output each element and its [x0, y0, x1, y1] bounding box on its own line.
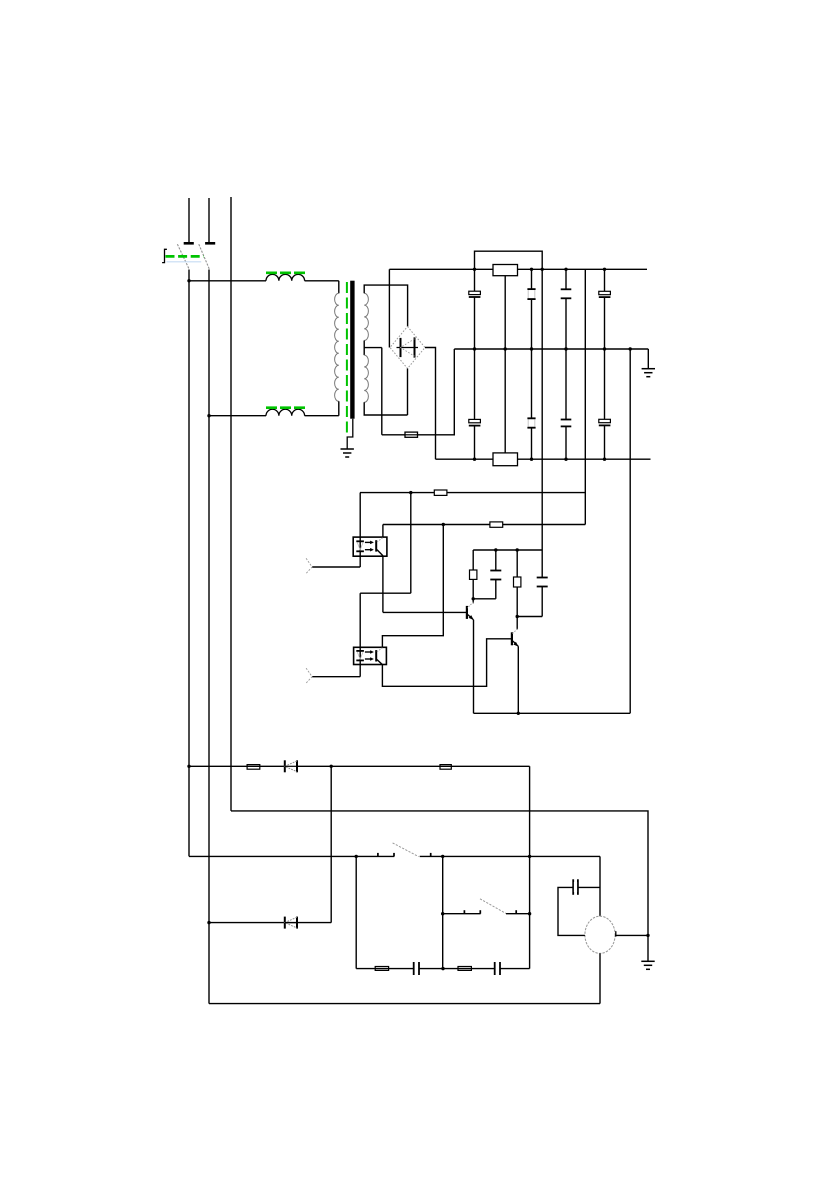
wire line A	[360, 492, 585, 494]
resistor R3	[470, 570, 477, 579]
wire snubber A drop	[355, 856, 357, 968]
optocoupler U3 box	[353, 537, 387, 556]
node AC line 2 primary return junction	[207, 414, 210, 417]
transistor Q2	[512, 629, 519, 647]
wire primary bottom lead	[305, 401, 339, 415]
wire motor earth riser	[647, 935, 649, 961]
breaker QF1 fixed contact bar pole 2	[205, 242, 215, 245]
wire motor riser	[599, 856, 601, 916]
wire AC line 1 below breaker	[188, 270, 190, 857]
node snubber A junction	[355, 855, 358, 858]
capacitor C12	[495, 962, 500, 975]
wire AC line 1 top entry	[188, 198, 190, 243]
wire driver section bottom rail	[474, 712, 631, 714]
optocoupler U3 phototransistor	[376, 538, 383, 556]
relay contact K1 blade	[393, 843, 419, 857]
capacitor C6	[527, 418, 535, 427]
node riser junction on line A	[409, 491, 412, 494]
capacitor C1	[469, 291, 481, 297]
node AC line 1 junction	[187, 279, 190, 282]
capacitor C4	[599, 291, 611, 297]
wire column C2	[531, 269, 533, 349]
node regulator ground junction	[504, 347, 507, 350]
node diode2 tap on AC line 2	[207, 921, 210, 924]
node snubber mid junction	[441, 967, 444, 970]
transformer T1 secondary winding upper	[364, 293, 368, 340]
wire motor bottom lead	[599, 953, 601, 1003]
wire line B	[383, 524, 585, 526]
wire bypass loop over regulator U1	[475, 251, 543, 269]
wire opto U3 LED column	[359, 493, 361, 567]
bridge rectifier D1 diamond outline	[390, 327, 425, 369]
regulator U1 box	[493, 265, 518, 276]
wire secondary centre stub	[363, 341, 365, 356]
capacitor C8	[599, 419, 611, 425]
wire long vertical middle-rail to driver rail	[629, 349, 631, 713]
wire bottom rail	[436, 458, 651, 460]
wire snubber line	[356, 968, 529, 970]
ground middle rail earth symbol	[642, 369, 655, 377]
fuse F1	[405, 432, 418, 437]
wire L2 to AC line 2	[209, 415, 266, 417]
optocoupler U3 light arrows	[365, 541, 374, 551]
resistor R7	[375, 967, 388, 971]
wire riser line A to opto2 bridge	[410, 493, 412, 594]
wire long vertical top-rail to line B	[584, 269, 586, 524]
node loop right junction	[541, 268, 544, 271]
resistor R4	[514, 577, 521, 587]
wire column C7	[565, 349, 567, 459]
wire bottom return rail	[209, 1003, 600, 1005]
motor M1 right brush tick	[615, 931, 617, 936]
relay contact K2 blade	[480, 899, 506, 914]
wire line1 left	[189, 765, 285, 767]
wire line2	[231, 811, 648, 936]
breaker QF1 handle bracket	[162, 249, 167, 262]
ground screen earth symbol	[341, 449, 354, 457]
wire centre tap to fuse	[382, 434, 405, 436]
wire regulator U2 ground pin	[504, 349, 506, 453]
inductor L1 core (green dashed)	[266, 271, 305, 274]
wire C10 to Q2 collector	[517, 616, 542, 618]
breaker QF1 blade pole 2	[199, 244, 210, 269]
wire contact line 1 right	[420, 855, 600, 857]
node C2 C6 junctions	[530, 268, 533, 461]
transformer T1 primary winding	[335, 293, 339, 401]
wire long vertical from loop to Q2 collector branch	[541, 269, 543, 616]
wire bridge left vertex to top rail	[388, 269, 390, 347]
optocoupler U4 phototransistor	[376, 648, 382, 665]
wire bridge right vertex to bottom rail	[425, 348, 436, 460]
capacitor C2	[527, 289, 535, 299]
node column junction middle rail	[629, 347, 632, 350]
capacitor C10	[537, 578, 548, 587]
wire opto U3 input	[312, 566, 360, 568]
wire column C5	[474, 349, 476, 459]
wire branch C9	[495, 550, 497, 599]
inductor L1	[266, 274, 305, 280]
node contact feed crossing junction	[528, 855, 531, 858]
capacitor C3	[561, 289, 572, 298]
breaker QF1 mechanical link (green dashed)	[166, 255, 204, 258]
node motor right junction	[646, 934, 649, 937]
wire contact line 2 left	[443, 913, 481, 915]
wire column C3	[565, 269, 567, 349]
wire line1 right	[297, 765, 530, 767]
optocoupler U4 box	[354, 647, 387, 664]
wire C13 right lead	[578, 886, 600, 888]
resistor R8	[458, 967, 471, 971]
wire motor right lead	[615, 934, 648, 936]
wire column C1	[474, 269, 476, 349]
wire opto U4 LED column	[359, 593, 361, 677]
wire middle rail	[454, 348, 648, 350]
inductor L2 core (green dashed)	[266, 406, 305, 409]
resistor R6	[440, 765, 451, 770]
resistor R1 on line A	[434, 490, 447, 495]
relay contact K2 terminal ticks	[464, 910, 516, 914]
ground motor earth symbol	[641, 961, 654, 969]
wire contact K2 riser	[442, 856, 444, 968]
capacitor C5	[469, 419, 481, 425]
wire column C8	[604, 349, 606, 459]
diode D3	[285, 917, 297, 929]
node Q2 emitter rail junction	[517, 712, 520, 715]
breaker QF1 blade pole 1	[177, 244, 189, 269]
wire diode2 line	[209, 922, 331, 924]
node sub-line junctions	[494, 548, 519, 551]
wire middle rail earth riser	[647, 349, 649, 369]
inductor L2	[266, 409, 305, 415]
breaker QF1 fixed contact bar pole 1	[184, 242, 194, 245]
wire regulator U1 ground pin	[504, 276, 506, 349]
wire contact line 2 right	[506, 913, 530, 915]
optocoupler U4 light arrows	[365, 651, 374, 661]
resistor R2 on line B	[490, 522, 503, 527]
node contact K2 right junction	[528, 912, 531, 915]
transformer T1 core bar	[350, 281, 354, 419]
node C4 C8 junctions	[603, 268, 606, 461]
wire opto U3 collector to line B	[382, 525, 384, 538]
wire opto U4 collector to line B	[382, 525, 443, 648]
optocoupler U3 LED	[356, 541, 364, 551]
capacitor C13 motor suppressor	[573, 879, 578, 895]
node Q1 collector junction	[472, 597, 475, 600]
node Q2 collector junction	[516, 615, 519, 618]
wire R3 C9 join	[473, 598, 496, 600]
node C3 C7 junctions	[564, 268, 567, 461]
wire diode riser	[330, 766, 332, 922]
wire centre tap	[364, 348, 382, 435]
transformer T1 screen (green dashed)	[346, 282, 348, 436]
wire secondary top lead	[364, 285, 407, 326]
capacitor C9	[490, 571, 501, 580]
relay contact K1 terminal ticks	[378, 853, 431, 857]
wire screen to ground	[347, 419, 353, 449]
wire sub-line	[473, 549, 542, 551]
node opto U4 collector junction line B	[442, 523, 445, 526]
capacitor C11	[414, 962, 419, 975]
wire branch R4	[516, 550, 518, 630]
transformer T1 secondary winding lower	[364, 355, 368, 402]
wire top rail	[389, 268, 647, 270]
node contact K2 feed junction	[441, 855, 444, 858]
node diode riser junction	[330, 765, 333, 768]
wire Q2 emitter to rail	[517, 646, 519, 713]
wire column C4	[604, 269, 606, 349]
wire AC line1 to L1	[189, 280, 266, 282]
wire bridge to opto2 LED	[360, 592, 411, 594]
connector pin 1 chevron	[306, 558, 312, 573]
wire opto U3 emitter to Q1 base	[383, 556, 467, 612]
wire secondary bottom lead	[364, 402, 407, 415]
wire opto U4 input	[312, 676, 360, 678]
motor M1 body	[585, 916, 615, 953]
resistor R5	[247, 765, 260, 770]
wire contact line 1 left	[189, 855, 394, 857]
node line1 tap on AC line 1	[187, 765, 190, 768]
wire C13 left loop	[558, 887, 585, 935]
wire column C6	[531, 349, 533, 459]
node C1 rail junctions	[473, 268, 476, 461]
transistor Q1	[467, 599, 474, 620]
breaker QF1 link shadow (light blue)	[167, 261, 202, 263]
wire AC line 3 vertical	[230, 197, 232, 811]
wire AC line 2 top entry	[208, 198, 210, 243]
wire L1 to primary	[305, 281, 339, 294]
optocoupler U4 LED	[356, 651, 364, 661]
wire opto U4 emitter to Q2 base	[382, 639, 512, 687]
bridge rectifier D1 diode symbol	[397, 337, 419, 357]
wire bridge bottom vertex to secondary	[407, 369, 409, 416]
diode D2	[285, 760, 297, 772]
wire branch R3	[472, 550, 474, 599]
connector pin 2 chevron	[306, 668, 312, 683]
wire Q1 emitter to rail	[473, 620, 475, 714]
wire AC line 2 below breaker	[208, 270, 210, 1004]
capacitor C7	[561, 420, 572, 427]
wire fuse to middle rail riser	[418, 349, 455, 435]
regulator U2 box	[493, 453, 518, 466]
node contact K2 left junction	[441, 912, 444, 915]
wire contact feed column	[529, 766, 531, 968]
